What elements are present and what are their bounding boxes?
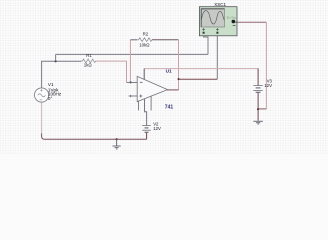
svg-text:12V: 12V	[264, 83, 272, 88]
svg-text:Ext Trig: Ext Trig	[227, 16, 236, 20]
wire V1 top riser	[41, 61, 43, 88]
wire ext trig return to ground	[258, 108, 267, 110]
node V3 ground junction	[257, 108, 259, 110]
label R1	[86, 53, 92, 58]
node ground rail junction	[116, 138, 118, 140]
node input junction	[55, 60, 57, 62]
pin scope channel B terminal	[216, 28, 219, 34]
battery V3	[253, 86, 262, 93]
wire R1 to op-amp inverting input	[96, 61, 127, 82]
wire input node horizontal V1 to R1	[41, 60, 81, 62]
label R1 value	[84, 63, 93, 68]
wire V1 bottom riser	[41, 102, 43, 134]
svg-text:U1: U1	[166, 68, 172, 74]
svg-text:0°: 0°	[48, 96, 53, 101]
wire ext trig	[237, 21, 267, 23]
label XSC1	[214, 2, 226, 7]
ground GND2	[253, 121, 263, 124]
pin 7 V+ stub U1	[143, 69, 145, 80]
resistor R1	[81, 59, 96, 63]
battery V2	[142, 126, 151, 133]
wire supply V+ horizontal to V3	[144, 69, 258, 70]
label U1	[166, 68, 172, 74]
wire op-amp output stub	[167, 89, 179, 91]
wire R2 right	[152, 39, 179, 41]
label V1 value	[48, 82, 62, 101]
op-amp U1	[127, 76, 168, 101]
svg-text:R1: R1	[86, 53, 92, 58]
wire V2 bottom	[146, 132, 148, 139]
wire R2 left riser (feedback)	[129, 40, 131, 83]
svg-text:XSC1: XSC1	[214, 2, 226, 7]
label V3 value	[264, 83, 272, 88]
pin 5 offset null stub	[150, 96, 152, 111]
wire output to scope B	[179, 78, 218, 80]
svg-text:741: 741	[165, 104, 174, 110]
wire V3 bottom to ground	[257, 92, 259, 120]
oscilloscope XSC1	[199, 7, 237, 36]
wire ext trig dogleg down	[265, 22, 267, 109]
label V2	[153, 122, 159, 127]
label R2 value	[139, 43, 150, 48]
label Ext Trig	[227, 16, 236, 20]
svg-text:10kΩ: 10kΩ	[139, 43, 150, 48]
wire bottom ground rail	[42, 133, 147, 139]
wire V3 top stub	[257, 69, 259, 86]
svg-text:1kΩ: 1kΩ	[84, 63, 93, 68]
source V1	[35, 88, 49, 102]
wire scope A horizontal	[56, 53, 208, 55]
pin ext trig terminal	[232, 20, 238, 26]
wire scope B drop	[216, 34, 218, 80]
wire feedback right riser	[178, 40, 180, 90]
node inverting input junction	[130, 81, 132, 83]
svg-text:R2: R2	[143, 32, 149, 37]
label U1 part 741	[165, 104, 174, 110]
node output junction	[178, 78, 180, 80]
pin 4 V- stub U1 to V2	[145, 99, 147, 126]
resistor R2	[137, 38, 152, 42]
label R2	[143, 32, 149, 37]
pin scope channel A terminal	[202, 28, 205, 34]
label V2 value	[153, 126, 161, 131]
wire scope A riser	[55, 54, 57, 61]
pin 1 offset null stub	[138, 101, 140, 111]
wire scope A drop	[204, 34, 208, 55]
ground GND1	[113, 139, 121, 149]
svg-text:12V: 12V	[153, 126, 161, 131]
wire R2 left	[130, 39, 137, 41]
label V3	[267, 79, 273, 84]
